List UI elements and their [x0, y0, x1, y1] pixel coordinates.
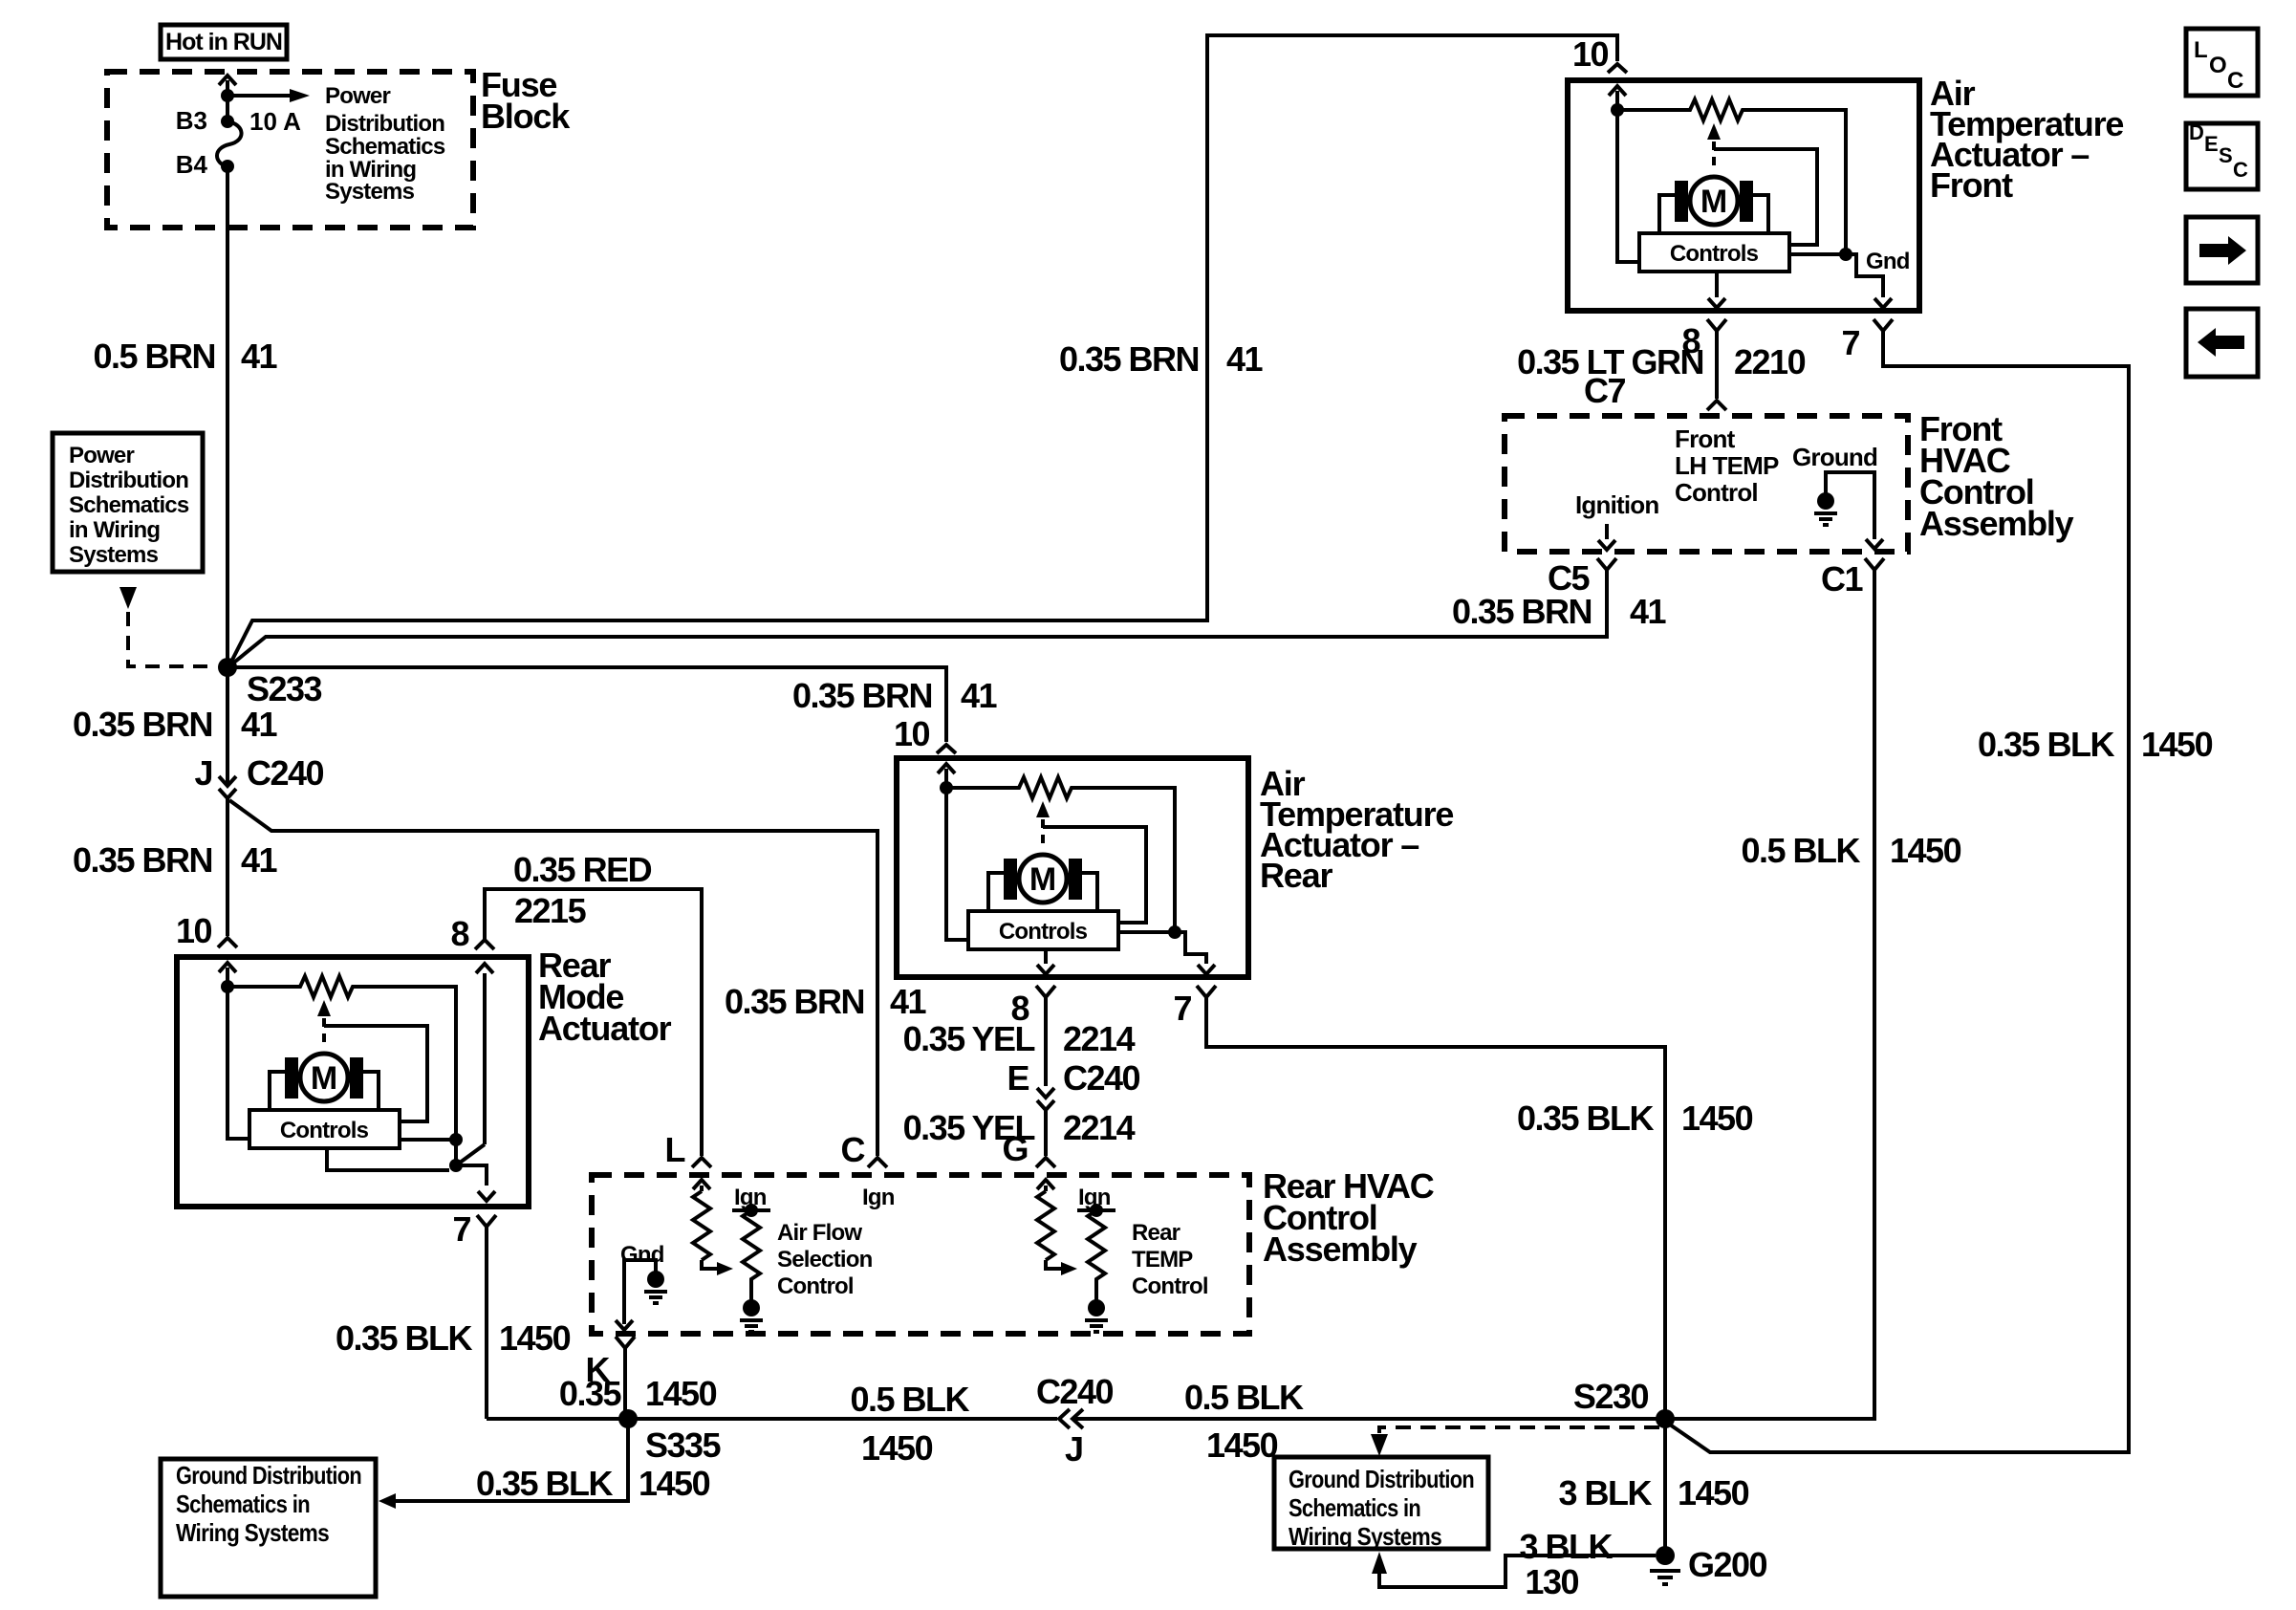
- svg-text:O: O: [2209, 53, 2227, 78]
- wire J to rear mode actuator pin 10 (0.35 BRN 41): [218, 798, 237, 947]
- wire S230 to G200 (3 BLK 1450): [1663, 1419, 1667, 1549]
- rear actuator box: [897, 758, 1248, 977]
- svg-text:10: 10: [1572, 34, 1609, 74]
- svg-text:0.35 BRN: 0.35 BRN: [73, 705, 212, 744]
- svg-text:Ign: Ign: [862, 1185, 895, 1210]
- svg-text:0.35 BLK: 0.35 BLK: [336, 1318, 473, 1358]
- svg-text:1450: 1450: [2141, 725, 2213, 764]
- svg-text:1450: 1450: [499, 1318, 571, 1358]
- rear pin 7 connector: [1197, 986, 1216, 997]
- svg-text:E: E: [2204, 132, 2219, 156]
- svg-text:Ground Distribution: Ground Distribution: [1289, 1465, 1474, 1493]
- rear junction at resistor end: [1168, 925, 1181, 939]
- svg-text:Hot in RUN: Hot in RUN: [165, 29, 282, 55]
- ignition arrow to C5: [1598, 524, 1615, 550]
- DESC box: [2186, 123, 2258, 189]
- rear wire to Controls left: [946, 788, 968, 940]
- rear Controls bottom wire to pin 8: [1037, 949, 1054, 974]
- svg-text:C240: C240: [247, 753, 324, 793]
- rear mode pin10 internal arrow: [219, 963, 236, 987]
- svg-text:Air Flow: Air Flow: [777, 1220, 862, 1246]
- svg-text:41: 41: [241, 705, 278, 744]
- svg-text:0.35 BLK: 0.35 BLK: [1978, 725, 2115, 764]
- rear mode Controls box: [249, 1110, 400, 1148]
- svg-text:1450: 1450: [1678, 1473, 1749, 1512]
- svg-text:1450: 1450: [1890, 831, 1961, 870]
- svg-text:2215: 2215: [514, 891, 587, 930]
- svg-text:Schematics: Schematics: [325, 134, 445, 160]
- rear mode Controls bottom wire: [327, 1148, 449, 1170]
- svg-text:L: L: [2194, 37, 2208, 63]
- rear motor M: [988, 855, 1097, 910]
- front internal junction: [1611, 103, 1624, 117]
- rear pin 8 connector: [1036, 986, 1055, 997]
- svg-text:Gnd: Gnd: [1866, 249, 1910, 274]
- svg-text:1450: 1450: [861, 1428, 933, 1468]
- rear pin10 internal arrow: [938, 764, 955, 788]
- svg-text:C: C: [2227, 68, 2243, 94]
- next arrow box: [2186, 217, 2258, 283]
- rear potentiometer resistor: [946, 777, 1175, 932]
- svg-text:0.35: 0.35: [559, 1374, 622, 1413]
- air flow selection resistor (below L): [693, 1180, 710, 1191]
- Hot in RUN box: [161, 25, 287, 59]
- ground G200: [1656, 1546, 1675, 1565]
- wire J branch to C of rear HVAC (0.35 BRN 41): [229, 800, 887, 1167]
- rear mode wiper wire to Controls: [324, 1026, 427, 1121]
- svg-text:41: 41: [890, 982, 927, 1021]
- svg-text:0.5 BLK: 0.5 BLK: [1184, 1378, 1304, 1417]
- svg-text:Schematics: Schematics: [69, 492, 189, 518]
- wire 3 BLK 130 from G200 to ground distribution box: [1379, 1556, 1656, 1587]
- svg-text:41: 41: [1226, 339, 1264, 379]
- svg-text:LH TEMP: LH TEMP: [1675, 451, 1779, 480]
- connector C1: [1865, 558, 1884, 570]
- svg-text:0.35 YEL: 0.35 YEL: [903, 1019, 1035, 1058]
- svg-text:J: J: [194, 753, 212, 793]
- terminal B3: [221, 115, 234, 128]
- svg-text:0.35 BLK: 0.35 BLK: [1517, 1099, 1655, 1138]
- rear temp wiper arrow: [1046, 1260, 1061, 1269]
- svg-text:Selection: Selection: [777, 1247, 873, 1273]
- wire S335 to ground distribution (0.35 BLK 1450): [396, 1419, 628, 1501]
- svg-text:Wiring Systems: Wiring Systems: [176, 1518, 329, 1547]
- svg-text:1450: 1450: [645, 1374, 717, 1413]
- svg-text:M: M: [1700, 184, 1727, 220]
- wire 0.35 YEL 2214 pin8 to E C240: [1037, 997, 1054, 1098]
- svg-text:B4: B4: [176, 150, 208, 179]
- svg-text:Controls: Controls: [999, 919, 1088, 945]
- rear mode internal junction: [221, 980, 234, 993]
- svg-text:8: 8: [450, 914, 468, 953]
- svg-text:Power: Power: [325, 83, 390, 109]
- wire 0.35 YEL 2214 to G: [1036, 1110, 1055, 1167]
- wire feed arrow up to Hot in RUN: [219, 76, 236, 96]
- svg-text:Ground Distribution: Ground Distribution: [176, 1461, 361, 1490]
- svg-text:M: M: [1029, 861, 1056, 898]
- svg-text:41: 41: [961, 676, 998, 715]
- arrow to Power Distribution Schematics: [227, 94, 290, 98]
- rear mode wiper arrow: [317, 1000, 331, 1016]
- front wiper arrow: [1707, 123, 1721, 140]
- connector K: [616, 1337, 635, 1348]
- svg-text:Control: Control: [1132, 1273, 1208, 1299]
- svg-text:7: 7: [1173, 989, 1191, 1028]
- rear temp resistor (below G): [1037, 1180, 1054, 1191]
- rear HVAC dashed box: [592, 1175, 1249, 1334]
- svg-text:0.5 BRN: 0.5 BRN: [93, 337, 215, 376]
- svg-text:Front: Front: [1930, 165, 2013, 205]
- svg-text:Distribution: Distribution: [69, 468, 188, 493]
- svg-text:1450: 1450: [1206, 1425, 1278, 1465]
- front Controls right wire to pin 7: [1789, 254, 1892, 308]
- wire rear mode pin7 0.35 BLK 1450 down to bus: [485, 1227, 488, 1419]
- svg-text:C: C: [841, 1130, 866, 1169]
- svg-text:in Wiring: in Wiring: [69, 517, 160, 543]
- ground symbol (front HVAC): [1814, 492, 1837, 525]
- svg-text:C7: C7: [1584, 371, 1625, 410]
- svg-text:Power: Power: [69, 443, 134, 468]
- rear mode junction dot2: [454, 1140, 458, 1165]
- svg-text:2214: 2214: [1063, 1019, 1136, 1058]
- svg-text:Controls: Controls: [1670, 241, 1759, 267]
- svg-text:0.35 BLK: 0.35 BLK: [476, 1464, 614, 1503]
- svg-text:Control: Control: [1675, 478, 1758, 507]
- svg-text:C240: C240: [1036, 1372, 1114, 1411]
- svg-text:0.5 BLK: 0.5 BLK: [1741, 831, 1860, 870]
- Ground Distribution box (left): [161, 1459, 376, 1597]
- rear mode pin8 internal wire with arrow: [476, 964, 493, 1144]
- svg-text:0.35 BRN: 0.35 BRN: [725, 982, 864, 1021]
- svg-text:Block: Block: [481, 97, 571, 136]
- rear mode diagonal to pin8 wire: [456, 1144, 485, 1165]
- svg-text:C: C: [2233, 158, 2248, 182]
- connector E C240: [1037, 1100, 1054, 1110]
- svg-text:S233: S233: [247, 669, 322, 708]
- Ign feed resistor (air flow): [732, 1208, 770, 1212]
- svg-text:3 BLK: 3 BLK: [1519, 1527, 1613, 1566]
- wire S233 down to connector J C240: [219, 667, 236, 786]
- svg-text:S: S: [2219, 143, 2233, 167]
- front actuator box: [1568, 80, 1919, 311]
- Fuse Block dashed box: [107, 72, 473, 228]
- svg-text:Actuator: Actuator: [538, 1009, 672, 1048]
- rear Controls right wire to pin 7: [1118, 932, 1215, 974]
- svg-text:2214: 2214: [1063, 1108, 1136, 1147]
- wire 0.5 BRN 41 from B4 to S233: [226, 166, 229, 667]
- wire C5 0.35 BRN 41: [1605, 570, 1609, 637]
- air flow wiper arrow: [702, 1260, 717, 1269]
- svg-text:Ground: Ground: [1792, 443, 1877, 471]
- svg-text:Rear: Rear: [1132, 1220, 1180, 1246]
- ground symbol (rear temp): [1085, 1299, 1108, 1332]
- svg-text:0.35 BRN: 0.35 BRN: [73, 840, 212, 880]
- front wire to Controls left: [1617, 110, 1639, 262]
- svg-text:Control: Control: [777, 1273, 854, 1299]
- svg-text:41: 41: [241, 337, 278, 376]
- gnd wire to K: [616, 1272, 633, 1330]
- svg-text:G200: G200: [1688, 1545, 1767, 1584]
- svg-text:Systems: Systems: [325, 179, 415, 205]
- svg-text:Front: Front: [1675, 424, 1736, 453]
- svg-text:Assembly: Assembly: [1263, 1229, 1418, 1269]
- svg-text:41: 41: [241, 840, 278, 880]
- node S230: [1656, 1409, 1675, 1428]
- node feed junction: [221, 89, 234, 102]
- wire S233 branch to rear actuator pin 10: [227, 667, 956, 753]
- terminal B4: [221, 160, 234, 173]
- rear mode motor M: [270, 1054, 379, 1109]
- wire S233 branch to C5 (0.35 BRN 41): [230, 573, 1607, 665]
- svg-text:41: 41: [1630, 592, 1667, 631]
- front Controls box: [1639, 233, 1789, 272]
- Power Distribution Schematics box (left): [53, 433, 203, 572]
- rear mode wire to Controls left: [227, 987, 249, 1139]
- svg-text:0.35 BRN: 0.35 BRN: [1059, 339, 1199, 379]
- connector C5: [1597, 558, 1616, 570]
- svg-text:TEMP: TEMP: [1132, 1247, 1193, 1273]
- rear mode potentiometer resistor: [227, 976, 456, 1140]
- rear mode junction dot1: [449, 1133, 463, 1146]
- svg-text:Wiring Systems: Wiring Systems: [1289, 1522, 1441, 1551]
- front Controls bottom wire to pin 8: [1708, 272, 1725, 308]
- svg-text:10: 10: [176, 911, 212, 950]
- rear mode Controls right wire: [400, 1138, 456, 1142]
- svg-text:7: 7: [1841, 323, 1859, 362]
- LOC box: [2186, 29, 2258, 96]
- svg-text:C1: C1: [1821, 559, 1863, 598]
- svg-text:2210: 2210: [1734, 342, 1806, 381]
- ground symbol (rear HVAC): [644, 1271, 667, 1303]
- front wiper wire to Controls: [1714, 149, 1817, 245]
- wire 0.35 RED 2215 pin8 to L: [485, 889, 711, 1167]
- connector C240 J on bus: [1059, 1409, 1083, 1428]
- svg-text:G: G: [1002, 1129, 1028, 1168]
- dashed link S230 to ground distribution box: [1379, 1427, 1659, 1433]
- svg-text:0.35 RED: 0.35 RED: [513, 850, 652, 889]
- svg-text:Rear: Rear: [1260, 856, 1332, 895]
- svg-text:0.35 BRN: 0.35 BRN: [1452, 592, 1592, 631]
- node S233: [218, 658, 237, 677]
- connector J C240: [219, 789, 236, 798]
- front motor M: [1659, 177, 1768, 232]
- svg-text:S335: S335: [645, 1425, 722, 1465]
- svg-text:S230: S230: [1573, 1377, 1649, 1416]
- dashed link from Power Distribution box to S233: [119, 587, 137, 609]
- wire K 0.35 1450 to S335: [623, 1348, 627, 1419]
- front HVAC dashed box: [1505, 416, 1908, 552]
- Ign feed resistor (rear temp): [1077, 1208, 1116, 1212]
- rear wiper wire to Controls: [1043, 827, 1146, 923]
- svg-text:Schematics in: Schematics in: [1289, 1493, 1420, 1522]
- front pin 8 connector: [1707, 319, 1726, 331]
- svg-text:1450: 1450: [1681, 1099, 1753, 1138]
- front pin10 internal arrow: [1609, 86, 1626, 110]
- svg-text:130: 130: [1525, 1562, 1578, 1601]
- svg-text:Schematics in: Schematics in: [176, 1490, 310, 1518]
- svg-text:7: 7: [452, 1209, 470, 1249]
- rear mode pin 8 connector (top): [475, 940, 494, 949]
- svg-text:0.5 BLK: 0.5 BLK: [850, 1380, 969, 1419]
- svg-text:0.35 BRN: 0.35 BRN: [792, 676, 932, 715]
- svg-text:E: E: [1007, 1058, 1029, 1098]
- svg-text:10: 10: [894, 714, 930, 753]
- bus wire right segment: [1074, 1417, 1665, 1421]
- rear mode pin7 wire: [456, 1165, 495, 1201]
- wire S233 branch to front actuator pin 10 (0.35 BRN 41): [230, 35, 1627, 664]
- node S335: [618, 1409, 638, 1428]
- svg-text:Systems: Systems: [69, 542, 159, 568]
- fuse 10 A: [226, 96, 229, 121]
- svg-text:Assembly: Assembly: [1919, 504, 2074, 543]
- rear internal junction: [940, 781, 953, 794]
- wire rear pin7 0.35 BLK 1450 to S230: [1206, 997, 1665, 1419]
- ground symbol (air flow): [740, 1299, 763, 1332]
- svg-text:J: J: [1065, 1429, 1083, 1469]
- svg-text:3 BLK: 3 BLK: [1558, 1473, 1652, 1512]
- svg-text:C240: C240: [1063, 1058, 1140, 1098]
- rear mode actuator box: [177, 957, 529, 1207]
- svg-text:Ignition: Ignition: [1575, 490, 1658, 519]
- svg-text:M: M: [311, 1060, 337, 1097]
- svg-text:Distribution: Distribution: [325, 111, 444, 137]
- wire 0.35 LT GRN 2210 pin8 to C7: [1707, 331, 1726, 410]
- front pin 7 connector: [1874, 319, 1893, 331]
- svg-text:L: L: [665, 1130, 685, 1169]
- front junction at resistor end: [1839, 248, 1852, 261]
- front potentiometer resistor: [1617, 99, 1846, 254]
- prev arrow box: [2186, 309, 2258, 377]
- Ground Distribution box (right): [1274, 1457, 1488, 1549]
- rear Controls box: [968, 911, 1118, 949]
- rear mode pin 7 connector: [477, 1215, 496, 1227]
- svg-text:Controls: Controls: [280, 1118, 369, 1143]
- svg-text:B3: B3: [176, 106, 207, 135]
- svg-text:1450: 1450: [639, 1464, 710, 1503]
- svg-text:10 A: 10 A: [249, 107, 301, 136]
- wire front pin7 gnd 0.35 BLK 1450 down right side: [1667, 331, 2129, 1452]
- rear wiper arrow: [1036, 801, 1050, 817]
- wire C1 0.5 BLK 1450 down to bus: [1665, 570, 1874, 1419]
- bus wire left segment: [487, 1417, 1057, 1421]
- svg-text:D: D: [2189, 120, 2204, 144]
